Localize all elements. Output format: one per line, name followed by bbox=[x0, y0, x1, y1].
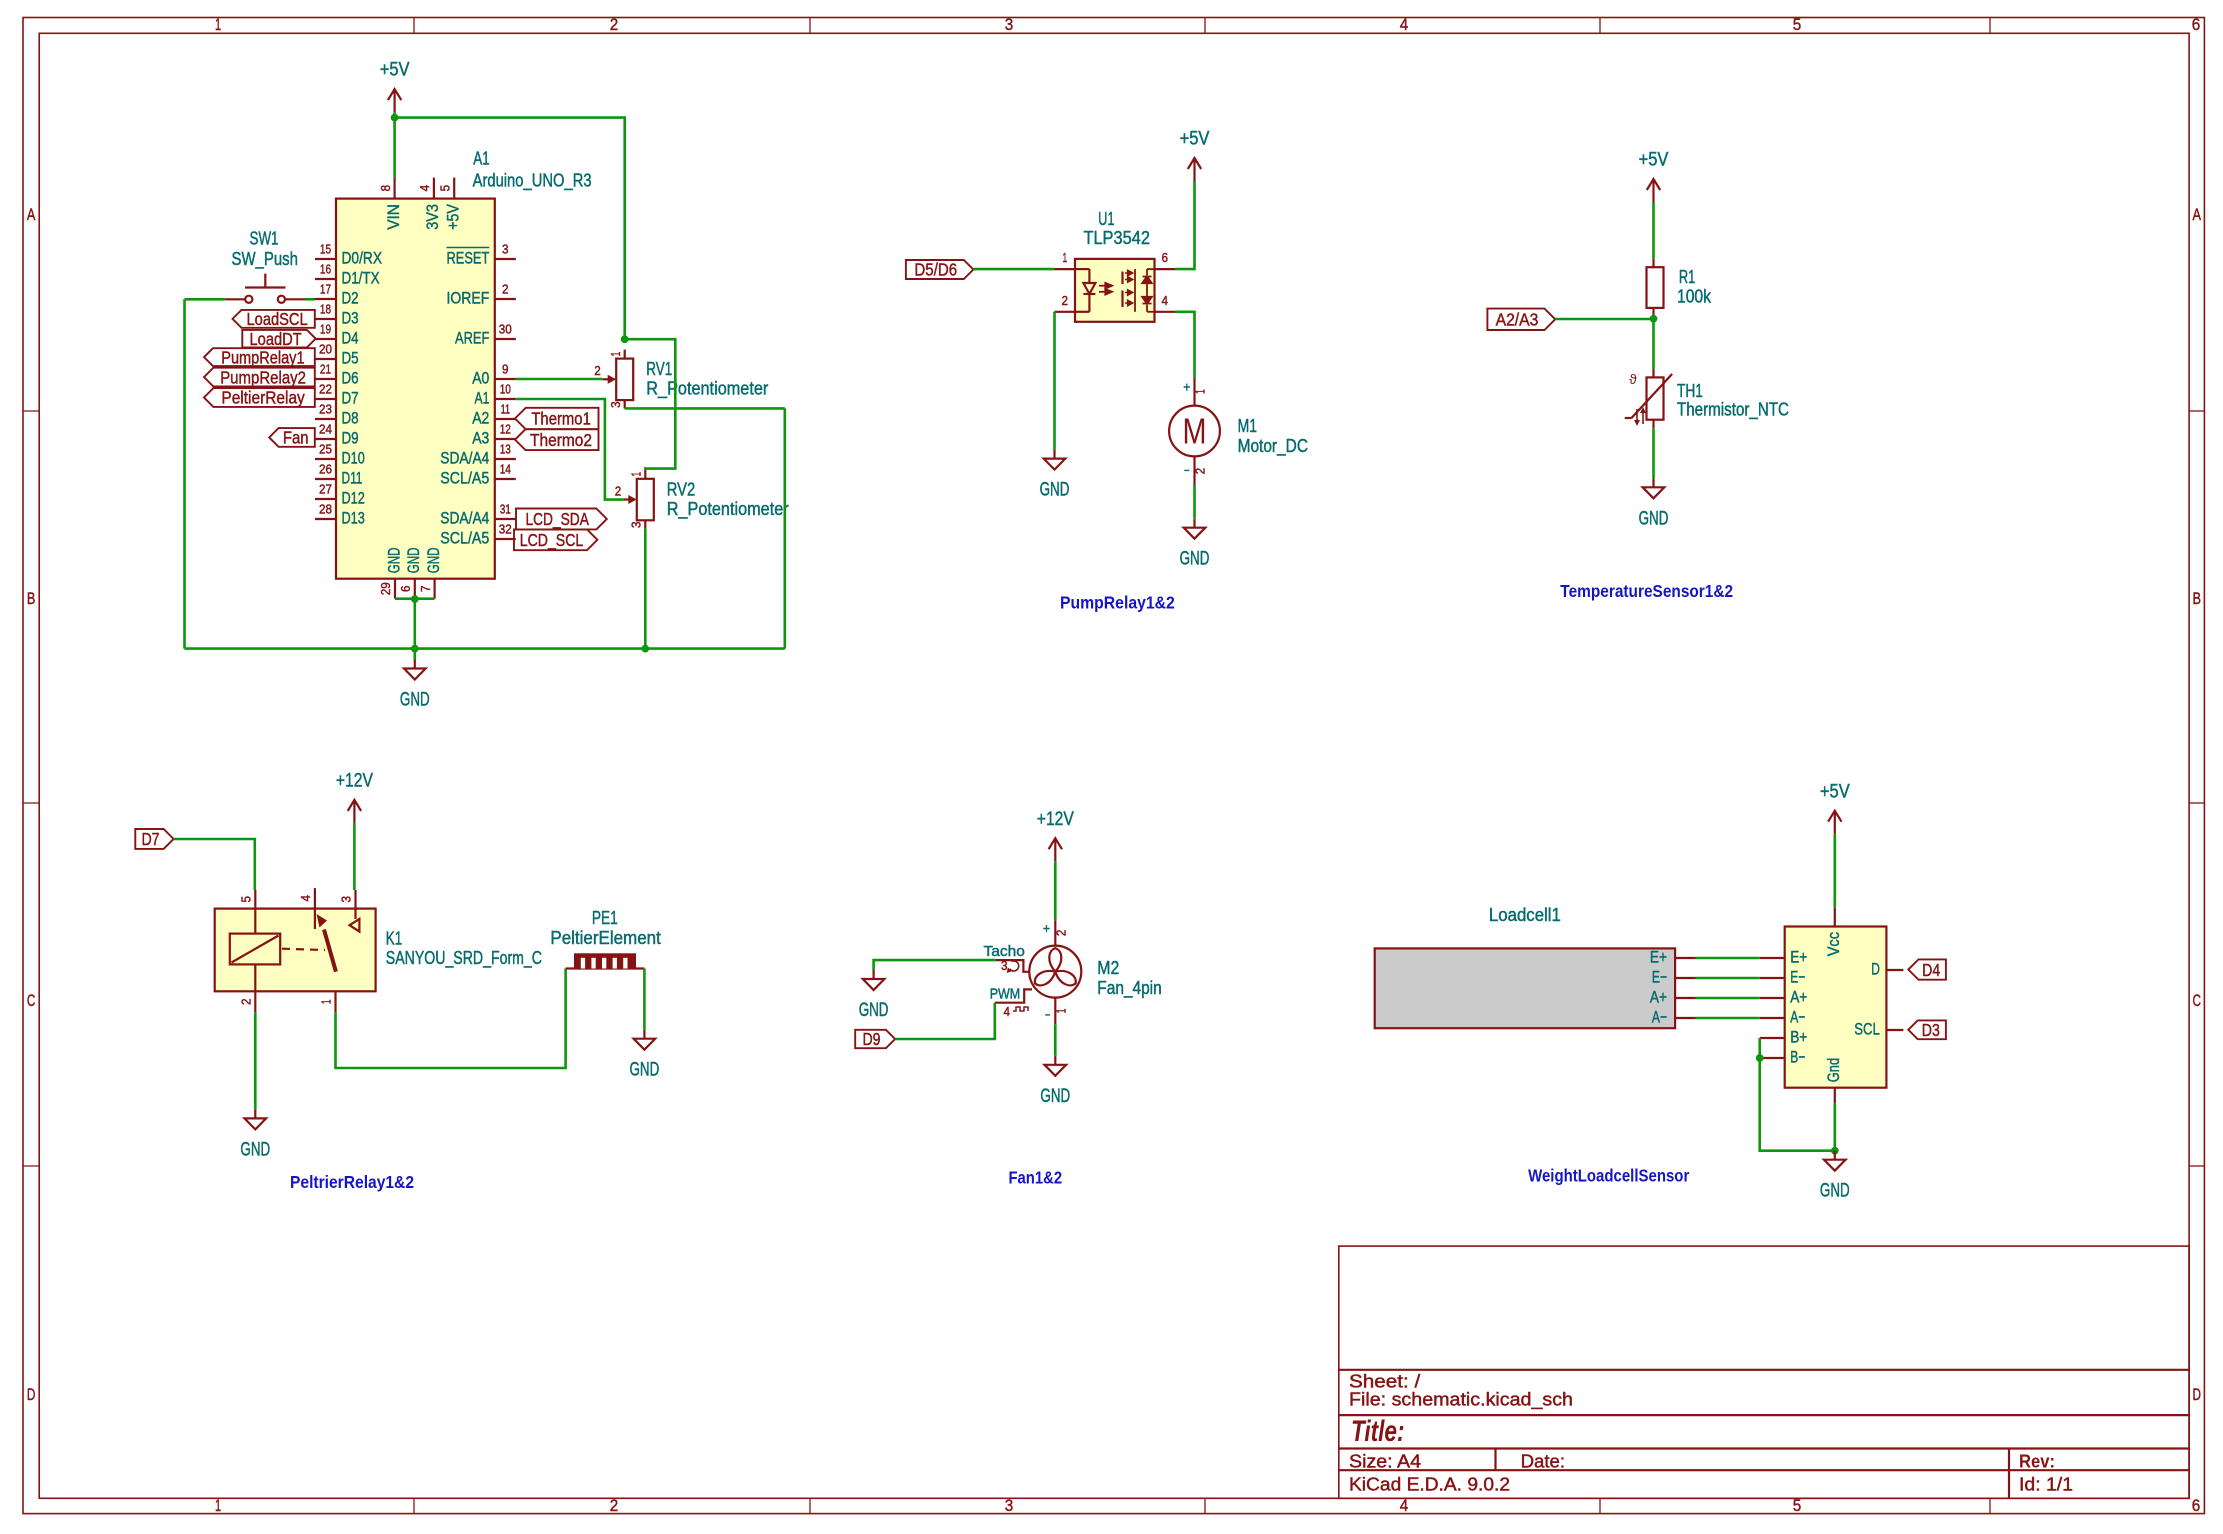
svg-text:26: 26 bbox=[319, 463, 332, 477]
svg-text:12: 12 bbox=[500, 423, 511, 437]
svg-text:1: 1 bbox=[320, 999, 334, 1004]
svg-text:Thermo2: Thermo2 bbox=[530, 430, 592, 450]
svg-text:D9: D9 bbox=[342, 429, 359, 448]
svg-text:LoadDT: LoadDT bbox=[250, 329, 302, 349]
caption Fan1&2 bbox=[1009, 1167, 1063, 1187]
svg-text:1: 1 bbox=[1062, 251, 1067, 265]
svg-text:3: 3 bbox=[340, 896, 354, 903]
svg-text:15: 15 bbox=[320, 243, 331, 257]
svg-text:6: 6 bbox=[1162, 251, 1169, 265]
wire +5V down to VIN bbox=[393, 112, 396, 178]
svg-text:19: 19 bbox=[320, 323, 331, 337]
svg-text:A0: A0 bbox=[472, 369, 489, 388]
Arduino A1 body bbox=[336, 199, 495, 579]
svg-text:LoadSCL: LoadSCL bbox=[247, 309, 308, 329]
power +5V (R1) bbox=[1639, 150, 1669, 202]
junction +5V branch bbox=[391, 114, 399, 122]
svg-text:Size: A4: Size: A4 bbox=[1349, 1451, 1421, 1471]
svg-text:Fan: Fan bbox=[283, 428, 309, 448]
svg-text:4: 4 bbox=[1004, 1005, 1011, 1019]
svg-text:8: 8 bbox=[379, 185, 393, 192]
svg-text:Rev:: Rev: bbox=[2019, 1451, 2055, 1471]
svg-text:D6: D6 bbox=[342, 369, 359, 388]
title block rev text bbox=[2019, 1451, 2055, 1471]
junction RV1 pin1 bbox=[621, 335, 629, 343]
wire RV1 pin1 branch bbox=[625, 339, 676, 470]
svg-text:A−: A− bbox=[1652, 1008, 1667, 1027]
svg-text:20: 20 bbox=[319, 343, 332, 357]
svg-text:4: 4 bbox=[299, 895, 313, 902]
loadcell gray body bbox=[1375, 948, 1675, 1028]
svg-text:D2: D2 bbox=[342, 289, 359, 308]
wire K1 pin2 to GND bbox=[254, 1012, 257, 1109]
title block date text bbox=[1521, 1451, 1566, 1471]
svg-text:Date:: Date: bbox=[1521, 1451, 1566, 1471]
svg-text:M1: M1 bbox=[1238, 415, 1257, 436]
svg-text:GND: GND bbox=[424, 547, 443, 573]
title block id text bbox=[2019, 1474, 2073, 1494]
svg-text:16: 16 bbox=[320, 263, 331, 277]
caption TemperatureSensor1&2 bbox=[1560, 581, 1733, 601]
global label PumpRelay2 bbox=[204, 367, 315, 387]
svg-text:B: B bbox=[27, 590, 36, 608]
svg-text:SANYOU_SRD_Form_C: SANYOU_SRD_Form_C bbox=[386, 947, 542, 969]
global label A2/A3 bbox=[1487, 309, 1555, 330]
global label Thermo1 bbox=[515, 408, 599, 429]
wire D9 to PWM bbox=[895, 1003, 995, 1039]
value Arduino_UNO_R3 bbox=[473, 170, 592, 192]
svg-text:GND: GND bbox=[240, 1139, 270, 1160]
svg-text:13: 13 bbox=[500, 443, 511, 457]
svg-text:D7: D7 bbox=[141, 829, 159, 849]
svg-text:−: − bbox=[1184, 462, 1190, 478]
wire +5V to Vcc bbox=[1834, 834, 1837, 908]
svg-text:TemperatureSensor1&2: TemperatureSensor1&2 bbox=[1560, 581, 1733, 601]
svg-text:11: 11 bbox=[501, 403, 510, 417]
wire A2/A3 to junction bbox=[1555, 318, 1653, 321]
svg-text:3: 3 bbox=[609, 401, 623, 408]
junction GND pins bbox=[411, 595, 419, 603]
wire A1 to RV2 pin2 bbox=[516, 399, 624, 500]
ground (PE1) bbox=[630, 1030, 660, 1081]
svg-text:GND: GND bbox=[1040, 480, 1070, 501]
svg-text:5: 5 bbox=[1793, 16, 1802, 34]
svg-text:D4: D4 bbox=[342, 329, 359, 348]
svg-text:21: 21 bbox=[320, 363, 331, 377]
svg-text:3: 3 bbox=[1005, 1497, 1014, 1515]
resistor R1 100k bbox=[1647, 259, 1712, 319]
Arduino bottom GND pins 29 6 7 bbox=[379, 547, 443, 598]
wire SW1 to D2 bbox=[305, 298, 315, 301]
svg-text:27: 27 bbox=[319, 483, 332, 497]
svg-text:GND: GND bbox=[384, 547, 403, 573]
loadcell pins bbox=[1650, 948, 1696, 1027]
svg-text:4: 4 bbox=[1400, 16, 1409, 34]
wire SW1 left leg bbox=[185, 298, 226, 301]
svg-text:6: 6 bbox=[2192, 1497, 2201, 1515]
svg-text:A−: A− bbox=[1790, 1008, 1805, 1027]
svg-text:SDA/A4: SDA/A4 bbox=[440, 449, 489, 468]
svg-text:D8: D8 bbox=[342, 409, 359, 428]
title block file text bbox=[1349, 1390, 1573, 1411]
svg-text:3: 3 bbox=[502, 243, 509, 257]
svg-text:D11: D11 bbox=[342, 469, 363, 488]
svg-text:E+: E+ bbox=[1790, 948, 1807, 967]
svg-text:GND: GND bbox=[630, 1060, 660, 1081]
svg-text:A+: A+ bbox=[1790, 988, 1807, 1007]
svg-text:D: D bbox=[1871, 960, 1880, 979]
power +5V (Arduino VIN) bbox=[380, 60, 410, 112]
wire ground bus bbox=[185, 647, 785, 650]
svg-text:10: 10 bbox=[500, 383, 511, 397]
svg-text:29: 29 bbox=[379, 582, 393, 595]
svg-text:SCL/A5: SCL/A5 bbox=[440, 469, 489, 488]
svg-text:PWM: PWM bbox=[990, 986, 1021, 1002]
svg-text:+: + bbox=[1183, 379, 1190, 395]
potentiometer RV1 bbox=[594, 350, 768, 409]
global label PeltierRelay bbox=[204, 388, 315, 408]
svg-text:5: 5 bbox=[240, 896, 254, 903]
svg-text:30: 30 bbox=[499, 323, 512, 337]
junction bus at RV2 bbox=[641, 645, 649, 653]
wire +5V to R1 bbox=[1652, 202, 1655, 259]
svg-text:6: 6 bbox=[2192, 16, 2201, 34]
svg-text:31: 31 bbox=[500, 503, 511, 517]
svg-text:LCD_SDA: LCD_SDA bbox=[525, 509, 589, 530]
svg-text:A1: A1 bbox=[473, 148, 489, 169]
wire U1 pin2 to GND bbox=[1053, 312, 1056, 450]
svg-text:D9: D9 bbox=[862, 1029, 880, 1049]
svg-text:Loadcell1: Loadcell1 bbox=[1489, 904, 1561, 925]
ground (U1) bbox=[1040, 450, 1070, 501]
global label D7 bbox=[135, 829, 173, 849]
svg-text:R1: R1 bbox=[1679, 266, 1695, 287]
svg-text:23: 23 bbox=[319, 403, 332, 417]
wire +12V to K1 pin3 bbox=[353, 823, 356, 890]
svg-text:E−: E− bbox=[1652, 968, 1667, 987]
svg-text:+5V: +5V bbox=[1180, 129, 1210, 150]
svg-text:PumpRelay1&2: PumpRelay1&2 bbox=[1060, 593, 1175, 613]
svg-text:D5/D6: D5/D6 bbox=[914, 260, 957, 280]
wire D7 to K1 pin5 bbox=[174, 839, 255, 890]
svg-text:GND: GND bbox=[1820, 1181, 1850, 1202]
relay K1 SANYOU_SRD_Form_C bbox=[215, 888, 542, 1012]
svg-text:RV2: RV2 bbox=[667, 479, 696, 500]
svg-text:B−: B− bbox=[1790, 1048, 1805, 1067]
title block kicad text bbox=[1349, 1474, 1510, 1494]
svg-text:SW_Push: SW_Push bbox=[232, 248, 298, 270]
svg-text:3V3: 3V3 bbox=[423, 204, 442, 230]
Arduino top pins VIN 3V3 +5V bbox=[379, 178, 463, 230]
svg-text:Sheet: /: Sheet: / bbox=[1349, 1371, 1421, 1391]
label Loadcell1 bbox=[1489, 904, 1561, 925]
svg-text:U1: U1 bbox=[1098, 208, 1114, 229]
ground (K1) bbox=[240, 1109, 270, 1160]
svg-text:GND: GND bbox=[1639, 508, 1669, 529]
svg-text:+5V: +5V bbox=[1639, 150, 1669, 171]
svg-text:1: 1 bbox=[1054, 1009, 1068, 1014]
svg-text:D13: D13 bbox=[342, 509, 365, 528]
svg-text:D: D bbox=[2192, 1386, 2201, 1404]
ground (fan) bbox=[1040, 1056, 1070, 1107]
svg-text:4: 4 bbox=[418, 185, 432, 192]
svg-text:A: A bbox=[2192, 206, 2201, 224]
svg-text:PeltrierRelay1&2: PeltrierRelay1&2 bbox=[290, 1172, 414, 1192]
svg-text:2: 2 bbox=[610, 1497, 619, 1515]
svg-text:Vcc: Vcc bbox=[1824, 932, 1843, 956]
svg-text:PeltierElement: PeltierElement bbox=[550, 927, 660, 948]
motor M1 Motor_DC bbox=[1169, 377, 1308, 485]
svg-text:−: − bbox=[1045, 1007, 1051, 1023]
svg-text:Arduino_UNO_R3: Arduino_UNO_R3 bbox=[473, 170, 592, 192]
junction bus at GND bbox=[411, 645, 419, 653]
svg-text:GND: GND bbox=[859, 1000, 889, 1021]
wire U1 pin4 to M1 bbox=[1175, 312, 1195, 378]
svg-text:17: 17 bbox=[320, 283, 331, 297]
svg-text:2: 2 bbox=[615, 484, 622, 498]
svg-text:D12: D12 bbox=[342, 489, 365, 508]
power +5V (U1) bbox=[1180, 129, 1210, 181]
svg-text:+5V: +5V bbox=[444, 204, 463, 230]
svg-text:2: 2 bbox=[610, 16, 619, 34]
border row ticks bbox=[23, 411, 2204, 1166]
svg-text:KiCad E.D.A. 9.0.2: KiCad E.D.A. 9.0.2 bbox=[1349, 1474, 1510, 1494]
svg-text:GND: GND bbox=[404, 547, 423, 573]
svg-text:D0/RX: D0/RX bbox=[342, 249, 383, 268]
svg-text:A2/A3: A2/A3 bbox=[1496, 310, 1539, 330]
svg-text:C: C bbox=[27, 992, 36, 1010]
svg-text:3: 3 bbox=[630, 522, 644, 529]
svg-text:4: 4 bbox=[1400, 1497, 1409, 1515]
svg-text:PE1: PE1 bbox=[592, 907, 618, 928]
svg-text:2: 2 bbox=[594, 364, 601, 378]
svg-text:1: 1 bbox=[1194, 389, 1208, 394]
svg-text:SW1: SW1 bbox=[250, 228, 279, 249]
junction R1 TH1 bbox=[1650, 315, 1658, 323]
svg-text:PumpRelay1: PumpRelay1 bbox=[221, 347, 304, 367]
svg-text:E−: E− bbox=[1790, 968, 1805, 987]
svg-text:100k: 100k bbox=[1677, 286, 1712, 307]
ground (M1) bbox=[1180, 519, 1210, 570]
svg-text:2: 2 bbox=[1062, 294, 1069, 308]
wire A0 to RV1 pin2 bbox=[516, 378, 603, 381]
svg-text:5: 5 bbox=[1793, 1497, 1802, 1515]
optocoupler U1 TLP3542 bbox=[1055, 208, 1176, 322]
svg-text:B+: B+ bbox=[1790, 1028, 1807, 1047]
svg-text:3: 3 bbox=[1005, 16, 1014, 34]
title block title text bbox=[1351, 1415, 1405, 1448]
global label LCD_SCL bbox=[514, 529, 597, 551]
svg-text:D10: D10 bbox=[342, 449, 365, 468]
svg-text:Id: 1/1: Id: 1/1 bbox=[2019, 1474, 2073, 1494]
svg-text:D7: D7 bbox=[342, 389, 359, 408]
svg-text:D1/TX: D1/TX bbox=[342, 269, 380, 288]
wire RV1 pin3 right bbox=[625, 407, 785, 410]
thermistor TH1 Thermistor_NTC bbox=[1625, 369, 1789, 428]
wire GND drop bbox=[413, 599, 416, 649]
svg-text:GND: GND bbox=[400, 690, 430, 711]
svg-text:A3: A3 bbox=[472, 429, 489, 448]
svg-text:IOREF: IOREF bbox=[447, 289, 490, 308]
svg-text:RV1: RV1 bbox=[646, 358, 672, 379]
svg-text:A+: A+ bbox=[1650, 988, 1667, 1007]
svg-text:14: 14 bbox=[500, 463, 511, 477]
svg-text:R_Potentiometer: R_Potentiometer bbox=[646, 378, 768, 400]
global label LoadDT bbox=[242, 329, 315, 349]
svg-text:28: 28 bbox=[319, 503, 332, 517]
svg-text:22: 22 bbox=[319, 383, 332, 397]
global label D3 bbox=[1908, 1020, 1946, 1040]
ground (HX711) bbox=[1820, 1151, 1850, 1202]
caption PeltrierRelay1&2 bbox=[290, 1172, 414, 1192]
title block frame bbox=[1339, 1246, 2189, 1498]
global label LoadSCL bbox=[233, 309, 315, 329]
wire +5V branch to RV1 bbox=[395, 118, 625, 340]
svg-text:2: 2 bbox=[1054, 930, 1068, 937]
reference A1 bbox=[473, 148, 489, 169]
power +12V (M2) bbox=[1037, 809, 1074, 861]
svg-text:5: 5 bbox=[438, 185, 452, 192]
svg-text:25: 25 bbox=[319, 443, 332, 457]
global label Fan bbox=[269, 428, 315, 448]
svg-text:Tacho: Tacho bbox=[984, 944, 1025, 960]
global label PumpRelay1 bbox=[204, 347, 315, 367]
svg-text:SCL/A5: SCL/A5 bbox=[440, 529, 489, 548]
global label D4 bbox=[1908, 959, 1946, 979]
svg-text:+12V: +12V bbox=[336, 771, 373, 792]
svg-text:Thermo1: Thermo1 bbox=[531, 409, 591, 429]
wire SW1 left down bbox=[183, 299, 186, 648]
global label LCD_SDA bbox=[516, 509, 607, 531]
svg-text:C: C bbox=[2192, 992, 2201, 1010]
HX711 amplifier box bbox=[1760, 908, 1904, 1104]
ground (Arduino) bbox=[400, 660, 430, 711]
global label D9 bbox=[855, 1029, 895, 1049]
svg-text:VIN: VIN bbox=[384, 204, 403, 230]
border column ticks bbox=[414, 18, 1990, 1514]
wires loadcell to HX711 bbox=[1696, 958, 1760, 1018]
caption PumpRelay1&2 bbox=[1060, 593, 1175, 613]
svg-text:SDA/A4: SDA/A4 bbox=[440, 509, 489, 528]
junction B- bbox=[1756, 1054, 1764, 1062]
svg-text:D3: D3 bbox=[1922, 1020, 1940, 1040]
svg-text:24: 24 bbox=[319, 423, 332, 437]
ground (fan tacho) bbox=[859, 970, 889, 1021]
svg-text:32: 32 bbox=[499, 523, 512, 537]
svg-text:File: schematic.kicad_sch: File: schematic.kicad_sch bbox=[1349, 1390, 1573, 1411]
wire +5V to U1 pin6 bbox=[1175, 181, 1195, 269]
svg-text:R_Potentiometer: R_Potentiometer bbox=[667, 498, 789, 520]
svg-text:A: A bbox=[27, 206, 36, 224]
svg-text:6: 6 bbox=[399, 585, 413, 592]
svg-text:1: 1 bbox=[609, 352, 623, 357]
svg-text:A1: A1 bbox=[475, 389, 490, 408]
svg-text:9: 9 bbox=[502, 363, 509, 377]
svg-text:M2: M2 bbox=[1097, 957, 1119, 978]
wire junction to TH1 bbox=[1652, 319, 1655, 369]
wire GND pins tie bbox=[395, 597, 435, 600]
junction gnd net bbox=[1831, 1147, 1839, 1155]
svg-text:7: 7 bbox=[419, 585, 433, 592]
svg-text:D4: D4 bbox=[1922, 960, 1940, 980]
svg-text:E+: E+ bbox=[1650, 948, 1667, 967]
global label Thermo2 bbox=[515, 429, 599, 450]
svg-text:1: 1 bbox=[215, 16, 221, 34]
global label D5/D6 bbox=[906, 260, 973, 280]
svg-text:K1: K1 bbox=[386, 927, 402, 948]
svg-text:4: 4 bbox=[1162, 294, 1169, 308]
svg-text:Fan1&2: Fan1&2 bbox=[1009, 1167, 1063, 1187]
svg-text:3: 3 bbox=[1001, 959, 1008, 973]
wire TH1 to GND bbox=[1652, 428, 1655, 478]
svg-text:1: 1 bbox=[630, 472, 644, 477]
svg-text:+5V: +5V bbox=[1820, 781, 1850, 802]
wire tacho to GND bbox=[874, 960, 996, 970]
svg-text:2: 2 bbox=[240, 999, 254, 1006]
svg-text:Title:: Title: bbox=[1351, 1415, 1405, 1448]
wire K1 pin1 to PE1 bbox=[336, 969, 566, 1069]
title block size text bbox=[1349, 1451, 1421, 1471]
svg-text:ϑ: ϑ bbox=[1629, 371, 1637, 387]
wire PE1 to GND bbox=[643, 969, 646, 1030]
svg-text:PeltierRelay: PeltierRelay bbox=[221, 388, 305, 408]
svg-text:RESET: RESET bbox=[447, 249, 490, 268]
svg-text:+5V: +5V bbox=[380, 60, 410, 81]
svg-text:A2: A2 bbox=[472, 409, 489, 428]
switch SW1 SW_Push bbox=[225, 228, 305, 303]
wire RV1 pin3 drop bbox=[783, 408, 786, 648]
svg-text:Thermistor_NTC: Thermistor_NTC bbox=[1677, 399, 1789, 421]
svg-text:1: 1 bbox=[215, 1497, 221, 1515]
potentiometer RV2 bbox=[615, 470, 789, 529]
svg-text:D5: D5 bbox=[342, 349, 359, 368]
wire D5/D6 to U1 pin1 bbox=[973, 268, 1054, 271]
svg-text:+12V: +12V bbox=[1037, 809, 1074, 830]
svg-text:D: D bbox=[27, 1386, 36, 1404]
wire RV2 pin3 down bbox=[644, 529, 647, 649]
svg-text:Fan_4pin: Fan_4pin bbox=[1097, 977, 1161, 999]
svg-text:Gnd: Gnd bbox=[1824, 1058, 1843, 1082]
Arduino left pins D0-D13 bbox=[315, 243, 382, 528]
caption WeightLoadcellSensor bbox=[1528, 1166, 1689, 1186]
wire M1 to GND bbox=[1193, 485, 1196, 519]
svg-text:Motor_DC: Motor_DC bbox=[1238, 435, 1308, 457]
wire GND stub bbox=[413, 649, 416, 660]
Arduino right pins bbox=[440, 243, 516, 548]
ground (TH1) bbox=[1639, 478, 1669, 529]
svg-text:AREF: AREF bbox=[455, 329, 489, 348]
wire fan pin1 to GND bbox=[1054, 1024, 1057, 1056]
fan M2 Fan_4pin bbox=[984, 920, 1162, 1024]
svg-text:+: + bbox=[1043, 920, 1050, 936]
svg-text:D3: D3 bbox=[342, 309, 359, 328]
svg-text:PumpRelay2: PumpRelay2 bbox=[220, 367, 306, 387]
power +5V (HX711) bbox=[1820, 781, 1850, 833]
wire +12V to fan pin2 bbox=[1054, 861, 1057, 920]
svg-text:18: 18 bbox=[320, 303, 331, 317]
svg-text:2: 2 bbox=[502, 283, 509, 297]
svg-text:2: 2 bbox=[1194, 468, 1208, 475]
wire Gnd down bbox=[1834, 1103, 1837, 1150]
svg-text:WeightLoadcellSensor: WeightLoadcellSensor bbox=[1528, 1166, 1689, 1186]
wire B+ B- tie bbox=[1760, 1038, 1835, 1151]
border row letters bbox=[27, 206, 2201, 1404]
svg-text:GND: GND bbox=[1040, 1086, 1070, 1107]
svg-text:GND: GND bbox=[1180, 549, 1210, 570]
svg-text:M: M bbox=[1183, 411, 1207, 452]
svg-text:TLP3542: TLP3542 bbox=[1083, 227, 1150, 248]
power +12V (K1) bbox=[336, 771, 373, 823]
